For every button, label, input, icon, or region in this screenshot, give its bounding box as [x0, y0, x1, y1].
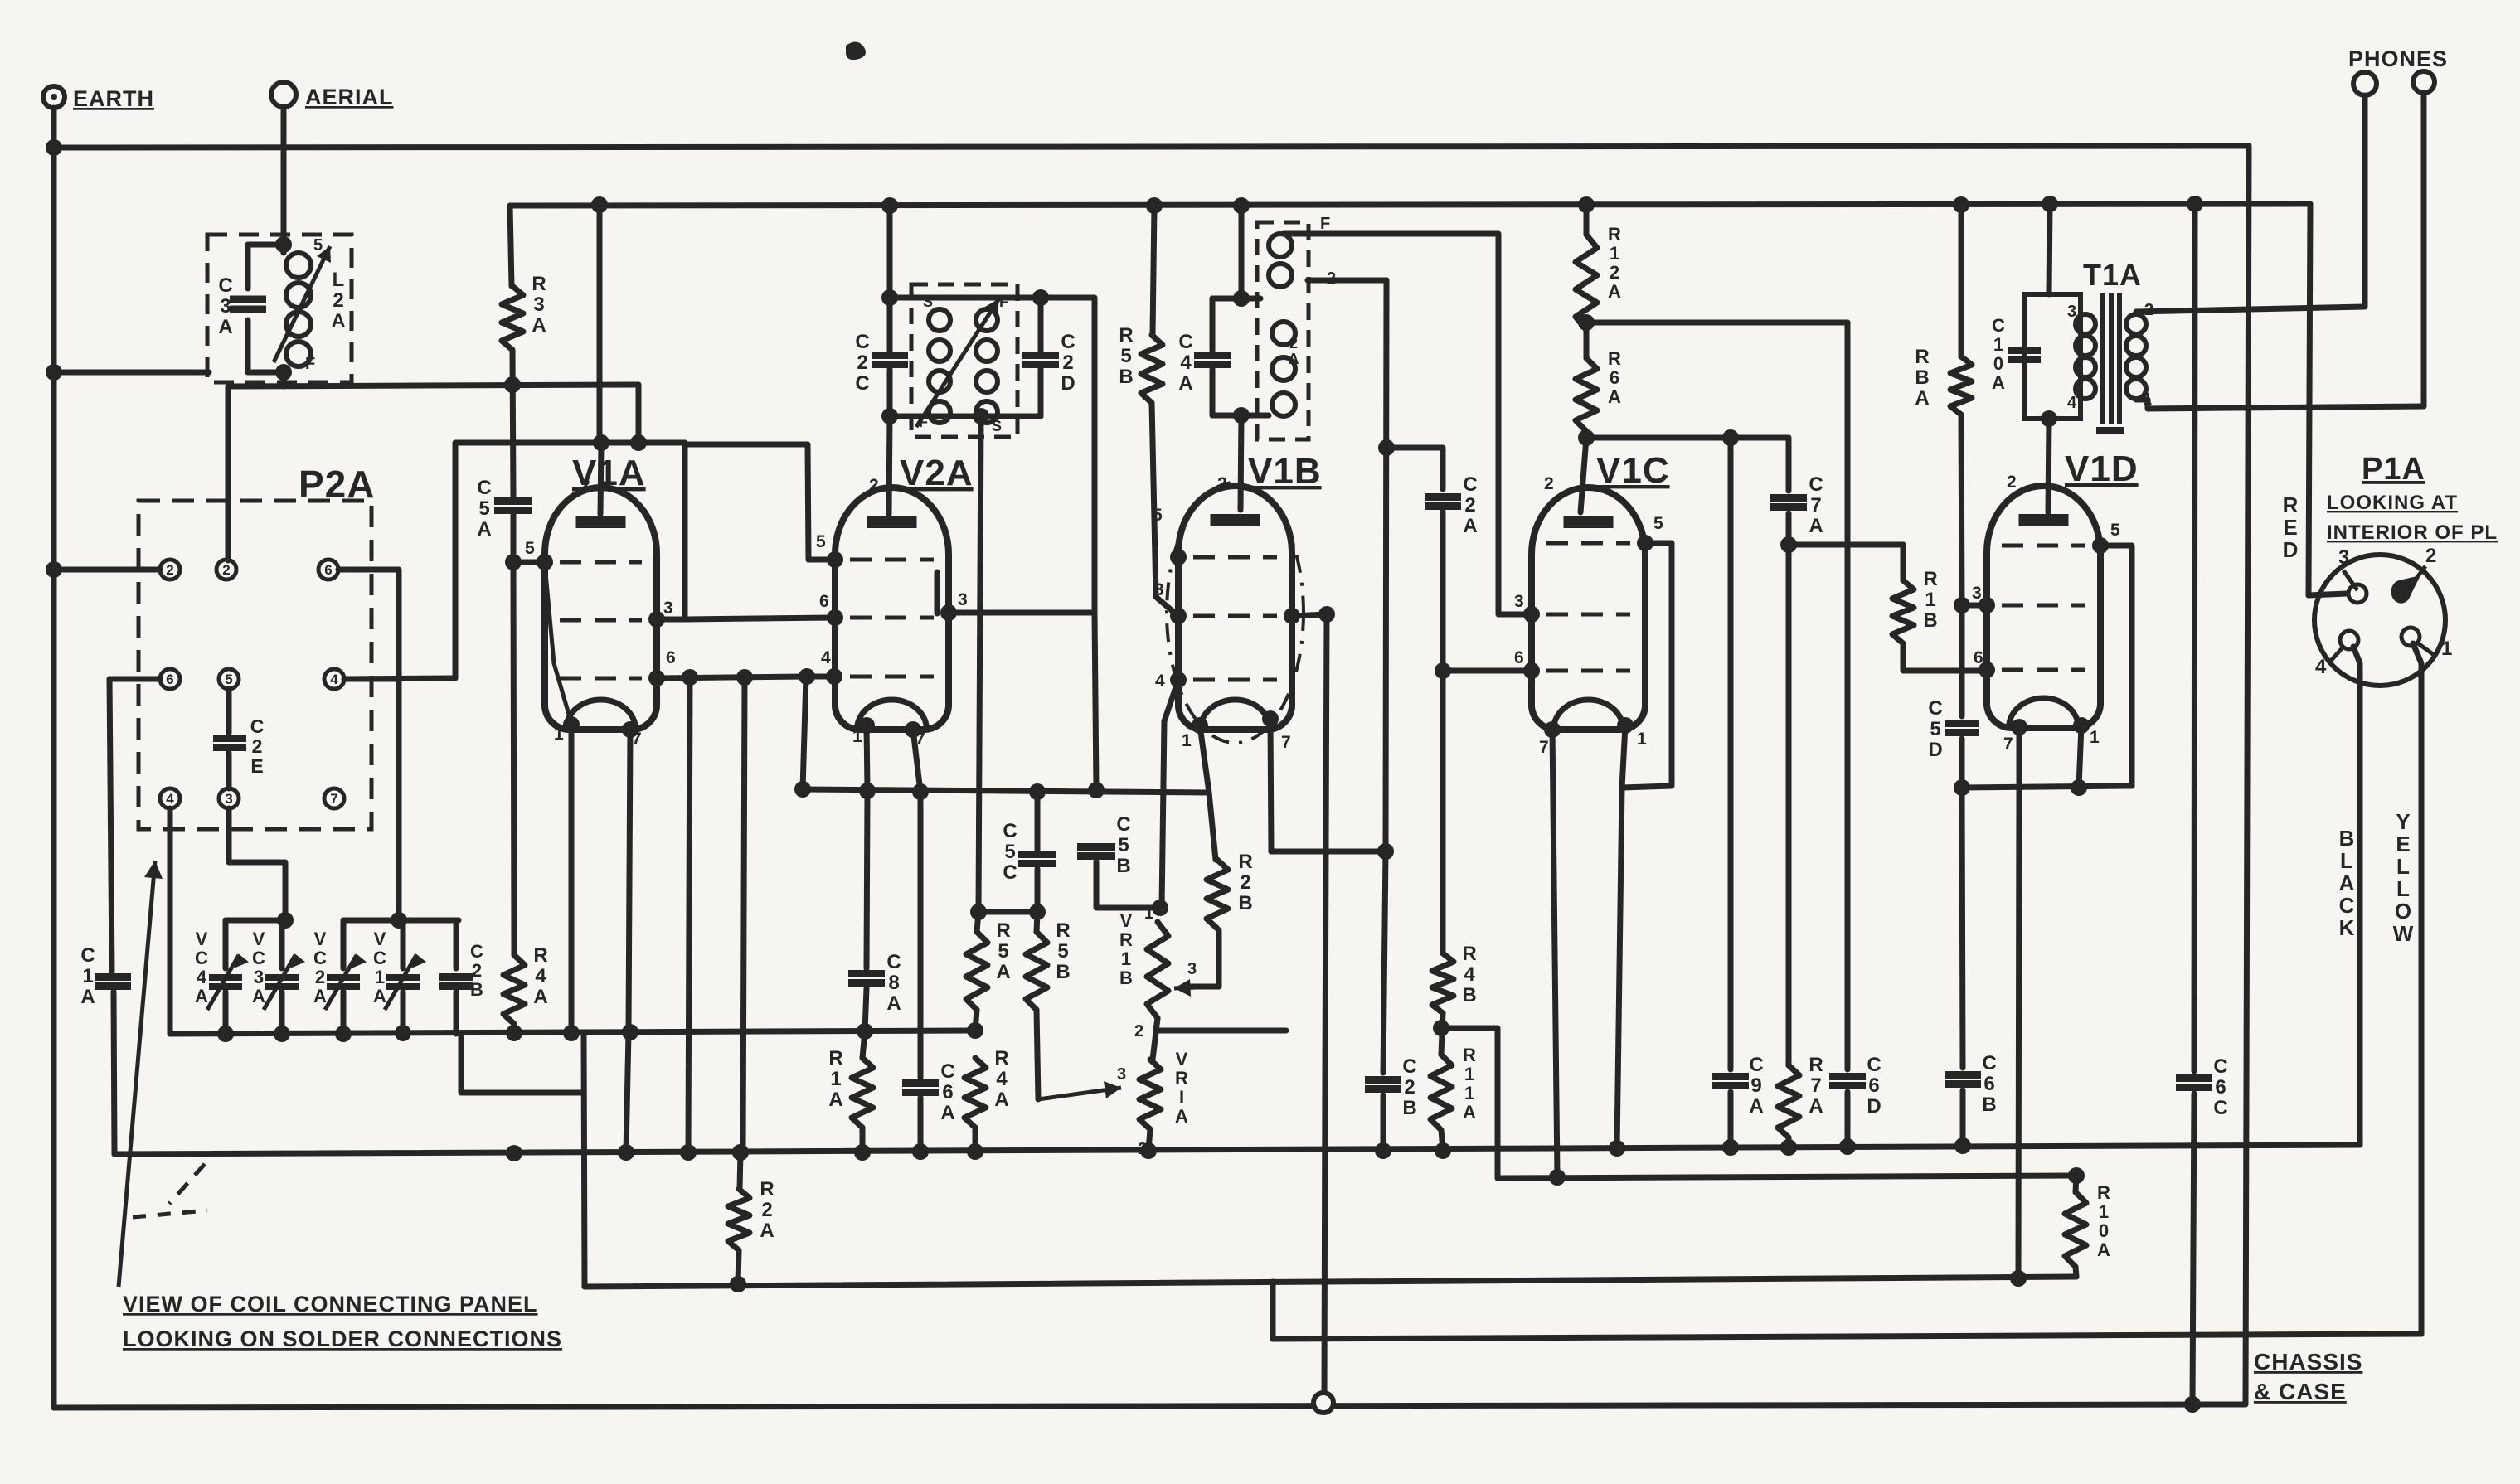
wire r2c1 left [109, 677, 160, 682]
junction x1672 y540 [1378, 439, 1395, 456]
capacitor C2C [872, 356, 908, 365]
svg-text:R1B: R1B [1923, 568, 1937, 632]
wire x898 from grid bus [743, 677, 745, 1152]
wire R4A b bottom [973, 1128, 978, 1151]
capacitor C7A [1770, 498, 1807, 507]
resistor R5A [966, 932, 988, 1010]
P2A terminal 5 r2c2 [219, 669, 239, 689]
V2A coil box dashed [911, 284, 1017, 437]
svg-text:R5B: R5B [1119, 324, 1133, 388]
svg-text:BLACK: BLACK [2339, 826, 2355, 940]
AERIAL terminal [271, 82, 296, 107]
wire C6C column [2194, 204, 2195, 1071]
svg-text:4: 4 [1155, 672, 1166, 691]
wire bus Y3 [114, 1145, 2360, 1154]
wire pin6 V1C link [1443, 668, 1532, 674]
wire bus Y3b [1498, 1176, 2076, 1178]
svg-text:3: 3 [2338, 546, 2350, 569]
transformer T1A box [2024, 294, 2081, 419]
wire Y1 step down [461, 1034, 584, 1093]
wire V1A pin2 cap lead [600, 443, 601, 514]
wire coil bottom rail [248, 370, 284, 376]
svg-text:C6C: C6C [2213, 1055, 2227, 1119]
svg-text:R6A: R6A [1608, 348, 1621, 407]
arrow view note to P2A [119, 861, 155, 1287]
P2A terminal 7 r3c3 [324, 788, 344, 808]
wire pin7 V1D drop [2018, 727, 2019, 1278]
wire r2c3 stub [344, 677, 399, 682]
junction R12A bottom [1578, 314, 1595, 331]
wire V1B pin3 stub [1292, 614, 1327, 616]
junction Y3b [1549, 1167, 2085, 1186]
wire C2C to V2A cap [889, 416, 890, 514]
P2A terminal 6 r1c3 [318, 560, 338, 580]
wire VC2A top lead [341, 920, 347, 968]
inductor L3B secondary [976, 309, 998, 423]
resistor R10A [2065, 1192, 2086, 1267]
svg-text:S: S [992, 418, 1003, 434]
wire coil rail top [890, 295, 1041, 301]
wire C9A to Y3 [1728, 1092, 1734, 1147]
wire busB to R8A [1959, 205, 1964, 356]
wire C5C bottom lead [1035, 869, 1041, 912]
wire R2A bottom [738, 1250, 739, 1284]
resistor R8A [1950, 356, 1972, 415]
tube V1D pin dots [1979, 537, 2109, 735]
P2A terminal 2 r1c1 [160, 560, 180, 580]
wire x1672 drop [1386, 280, 1386, 851]
wire R6A to V1C cap [1580, 438, 1586, 512]
wire x2366 down to C6B [1962, 788, 1963, 1068]
wire VC1A bottom [401, 992, 406, 1034]
wire pin5 V1A stub [513, 560, 545, 565]
wire C2E top [226, 689, 232, 733]
wire VC4A bottom [223, 992, 229, 1034]
wire R8A col to C5D [1959, 605, 1965, 716]
junction busB R8A [1953, 196, 1969, 213]
wire pin5 riser up [685, 444, 808, 560]
svg-text:C1A: C1A [80, 944, 95, 1008]
capacitor C2A [1425, 497, 1461, 507]
svg-text:V1B: V1B [1248, 451, 1322, 492]
wire C6D to Y3 [1845, 1092, 1851, 1147]
svg-text:R11A: R11A [1463, 1045, 1476, 1123]
svg-text:V1D: V1D [2065, 449, 2139, 489]
wire rail to V1B cap [1241, 415, 1241, 510]
wire VC1A top lead [401, 920, 406, 968]
ink blob artifact [846, 41, 866, 60]
resistor R4A b [964, 1058, 986, 1128]
wire pin5 V1C loop [1622, 543, 1672, 788]
junction R3A y463 [504, 376, 521, 393]
svg-text:3: 3 [1117, 1065, 1127, 1084]
wire coil 2 tap [1308, 278, 1386, 284]
arrow VR1B wiper [1174, 987, 1219, 988]
wire R7A to Y3 [1786, 1137, 1792, 1147]
junction y817 [682, 668, 815, 686]
junction bus Y3 dots [506, 1137, 1971, 1161]
svg-text:R10A: R10A [2097, 1182, 2110, 1260]
wire C2D bottom lead [1038, 369, 1044, 416]
aerial coil box dashed [207, 235, 352, 382]
wire R11A jog [1441, 1028, 1498, 1178]
svg-text:2: 2 [1217, 474, 1228, 493]
wire BLACK [2353, 647, 2360, 1145]
svg-text:F: F [999, 293, 1009, 310]
wire r3c1 down to rail Y1 [168, 808, 173, 1034]
wire YELLOW [2413, 643, 2421, 1334]
capacitor C2E [213, 739, 246, 748]
capacitor C5D [1945, 724, 1979, 733]
wire C5D to y953 [1959, 739, 1965, 788]
wire aerial drop [281, 107, 287, 245]
wire R5B mid to pin5 [1152, 403, 1178, 616]
plug pin 4 [2340, 631, 2358, 649]
svg-text:5: 5 [525, 539, 536, 558]
svg-text:1: 1 [2090, 728, 2100, 747]
resistor VR1A [1139, 1060, 1161, 1129]
svg-text:VC2A: VC2A [313, 929, 327, 1006]
svg-text:4: 4 [2315, 656, 2327, 678]
junction C2A pin6 [1435, 662, 1451, 679]
svg-text:VIEW OF COIL CONNECTING PANEL: VIEW OF COIL CONNECTING PANEL [123, 1292, 538, 1317]
wire R10A top [2076, 1176, 2076, 1192]
svg-text:C4A: C4A [1178, 331, 1192, 395]
wire C4A rail bottom [1212, 413, 1269, 419]
junction pin3 V1B [1318, 606, 1335, 623]
junction earth r1c1 [46, 561, 62, 578]
svg-text:2: 2 [580, 476, 591, 495]
P2A terminal 2 r1c2 [216, 560, 236, 580]
resistor R5B mid [1141, 335, 1163, 403]
wire x1956 to Y3 [1617, 788, 1622, 1148]
junction border C6C [2184, 1396, 2201, 1413]
wire x2087 down [1728, 438, 1734, 1069]
svg-text:R4A: R4A [994, 1047, 1008, 1111]
svg-text:R1A: R1A [828, 1047, 842, 1111]
wire y463 aerial to R3A [228, 385, 638, 386]
tube V1A [545, 487, 657, 730]
wire cathode bus y955 [803, 789, 1209, 793]
wire C6C to border [2192, 1094, 2194, 1404]
wire r3c2 jog to VC rail [229, 808, 285, 920]
P2A terminal 6 r2c1 [160, 669, 180, 689]
wire R2A top [740, 1152, 740, 1189]
wire x831 drop [688, 677, 690, 1152]
wire VR1B bottom tail [1156, 1018, 1286, 1031]
wire pin1 V1C drop [1622, 725, 1625, 788]
svg-text:R12A: R12A [1608, 224, 1621, 302]
svg-text:R3A: R3A [532, 273, 546, 337]
wire C3A stub top [245, 245, 251, 289]
wire C3A top rail [248, 242, 284, 248]
wire C2D top lead [1038, 298, 1044, 351]
junction T1A bottom [2041, 410, 2057, 427]
T1A core [2096, 293, 2124, 430]
svg-text:5: 5 [2110, 521, 2121, 540]
wire C2B mid to Y3 [1381, 1095, 1386, 1151]
wire R1A top [862, 1031, 865, 1058]
trimmer VC3A [264, 955, 303, 1010]
wire C5B bottom corner [1096, 861, 1160, 908]
wire VC rail2 [343, 918, 459, 924]
wire coil rail bottom [890, 414, 1041, 419]
tube V1C pin dots [1523, 535, 1653, 738]
capacitor C5B [1077, 847, 1115, 856]
resistor R1A [852, 1058, 873, 1128]
junction VC rail1 [277, 912, 294, 929]
wire busB corner down RED [2309, 204, 2310, 595]
tube V1C [1532, 487, 1645, 730]
wire R5A to Y1 [975, 1010, 977, 1031]
wire C4A top lead [1210, 298, 1216, 351]
svg-text:F: F [305, 355, 316, 373]
svg-text:VC4A: VC4A [195, 929, 208, 1006]
svg-text:C10A: C10A [1992, 315, 2005, 393]
resistor R4B [1432, 953, 1454, 1013]
svg-text:C7A: C7A [1809, 473, 1823, 537]
resistor R1B [1892, 580, 1914, 643]
wire V2A pin1 drop [867, 725, 867, 790]
wire VR1A to Y3 [1148, 1129, 1150, 1151]
svg-text:2: 2 [1544, 474, 1555, 493]
wire C5C top lead [1035, 792, 1041, 850]
svg-text:V1C: V1C [1596, 450, 1670, 491]
T1A secondary winding [2126, 314, 2146, 399]
svg-text:& CASE: & CASE [2254, 1379, 2347, 1404]
junction busB C6C [2187, 196, 2203, 212]
EARTH terminal center [51, 94, 57, 100]
tube V1A inner cathode [545, 564, 571, 723]
svg-text:5: 5 [1653, 514, 1664, 533]
wire phones left drop [2362, 95, 2368, 307]
junction y1100 [970, 904, 1046, 920]
wire y1027 link [1271, 849, 1386, 855]
svg-text:R2A: R2A [760, 1178, 774, 1242]
svg-text:1: 1 [554, 725, 565, 744]
svg-text:6: 6 [666, 648, 677, 667]
svg-text:1: 1 [2441, 638, 2453, 660]
svg-text:1: 1 [1637, 730, 1648, 749]
junction bus A left [46, 139, 62, 156]
wire R4B to R11A [1441, 1013, 1443, 1055]
resistor R2A [728, 1189, 750, 1250]
junction box top pin2 V1A [593, 434, 647, 451]
svg-text:C2B: C2B [470, 941, 483, 1000]
junction R2A [730, 1144, 749, 1292]
capacitor C6B [1945, 1075, 1981, 1084]
wire R5A top lead [977, 912, 978, 932]
wire y463 corner down to box top [636, 385, 642, 443]
wire R2B wiper link [1184, 930, 1219, 987]
terminal chassis open circle [1313, 1393, 1333, 1413]
tube V1A pin dots [537, 554, 665, 738]
svg-text:C6D: C6D [1867, 1054, 1881, 1118]
svg-text:3: 3 [1187, 960, 1197, 978]
wire C1A top [109, 679, 112, 972]
svg-text:6: 6 [166, 672, 173, 687]
svg-text:5: 5 [816, 532, 827, 551]
junction busB T1A [2042, 196, 2058, 212]
junction busB R12A [1578, 196, 1595, 213]
svg-text:6: 6 [1514, 648, 1525, 667]
svg-text:C6B: C6B [1982, 1052, 1996, 1116]
wire link y1100 [978, 909, 1037, 915]
svg-text:2: 2 [869, 476, 880, 495]
wire earth vertical left border [51, 108, 57, 1408]
wire top bus A [54, 146, 2249, 148]
wire C2E bottom [226, 753, 232, 788]
wire vert x704 to Y4 [584, 1034, 585, 1287]
P2A box dashed [138, 501, 371, 829]
junction C7A bottom branch [1780, 536, 1797, 553]
capacitor C8A [848, 974, 885, 983]
wire T1A pin2 out [2136, 307, 2364, 312]
wire R12A col top [1584, 205, 1590, 235]
wire V1B pin4 to VR1B [1162, 680, 1178, 908]
junction earth coil tap [46, 364, 62, 381]
junction busB R5Bmid [1146, 197, 1163, 214]
PHONES terminal right [2413, 71, 2435, 93]
svg-text:2A: 2A [1289, 335, 1299, 367]
plug P1A circle [2314, 555, 2445, 686]
capacitor C5C [1018, 855, 1056, 864]
junction C4A rail [1233, 290, 1250, 424]
wire busB to T1A [2049, 204, 2050, 294]
svg-text:2: 2 [222, 562, 230, 578]
wire C2B top lead [454, 920, 459, 968]
wire R1A bottom [860, 1128, 866, 1152]
wire RED to pin3 [2309, 594, 2347, 595]
wire y528 link [1586, 435, 1789, 441]
svg-text:INTERIOR OF PL: INTERIOR OF PL [2327, 521, 2498, 544]
inductor V1B coil lower [1272, 322, 1295, 416]
svg-text:S: S [923, 293, 934, 310]
wire C3A stub bottom [245, 320, 251, 372]
svg-text:R5A: R5A [996, 919, 1010, 983]
wire C2A down [1440, 512, 1446, 953]
capacitor C9A [1712, 1077, 1749, 1086]
svg-text:VR1B: VR1B [1119, 910, 1133, 988]
junction C5A pin5 [505, 554, 522, 570]
svg-text:RED: RED [2283, 492, 2299, 562]
svg-text:C6A: C6A [940, 1060, 954, 1124]
resistor VR1B [1147, 922, 1168, 1018]
svg-text:4: 4 [821, 648, 832, 667]
wire bus Y5 [1273, 1334, 2421, 1339]
arrow through L2A [274, 246, 330, 362]
wire R10A bottom [2076, 1267, 2076, 1277]
wire VC3A bottom [279, 992, 285, 1034]
svg-text:C9A: C9A [1749, 1054, 1763, 1118]
svg-text:C2D: C2D [1061, 331, 1075, 395]
svg-text:C5D: C5D [1928, 697, 1942, 761]
svg-text:R2B: R2B [1238, 851, 1252, 914]
wire y389 link [1586, 320, 1848, 326]
P2A terminal 4 r3c1 [160, 788, 180, 808]
wire C2B mid col [1383, 851, 1386, 1073]
wire bus Y4 [585, 1277, 2076, 1287]
svg-text:C2C: C2C [855, 331, 869, 395]
resistor R12A [1576, 235, 1597, 330]
svg-text:L2A: L2A [331, 269, 345, 332]
wire C8A to Y1 [865, 988, 867, 1031]
svg-text:5: 5 [313, 236, 323, 255]
svg-text:RBA: RBA [1915, 346, 1929, 410]
svg-text:2: 2 [1134, 1022, 1144, 1040]
svg-text:V2A: V2A [900, 453, 974, 493]
svg-text:1: 1 [1182, 731, 1192, 750]
wire C2B bottom [454, 992, 459, 1034]
wire y657 link [1789, 542, 1903, 548]
wire V2A pin3 stub [949, 610, 1095, 616]
svg-text:VC1A: VC1A [373, 929, 386, 1006]
svg-text:C2A: C2A [1463, 473, 1477, 537]
wire x2157 C7A top [1786, 438, 1792, 491]
wire bottom border [54, 1404, 2244, 1408]
capacitor C6A [902, 1084, 939, 1093]
wire C2C bottom lead [887, 369, 893, 416]
wire anode drop to C5B [1095, 613, 1096, 790]
wire rail Y1 [170, 1031, 975, 1034]
svg-text:R4B: R4B [1462, 943, 1476, 1006]
wire R3A to C5A [512, 350, 513, 497]
wire coil S drop x1180 [978, 416, 981, 912]
wire C5A to pin5 junction [511, 515, 517, 561]
capacitor C6C [2176, 1079, 2212, 1088]
resistor R4A [503, 955, 525, 1024]
wire V2A pin7 drop [913, 730, 920, 1078]
junction coil rail bottom [881, 408, 989, 424]
svg-text:6: 6 [819, 592, 830, 611]
junction rail Y1 [217, 1022, 983, 1042]
junction pin3 V1D branch [1954, 597, 1970, 613]
junction x898 y817 [736, 669, 753, 686]
wire VC3A top lead [279, 920, 285, 968]
svg-text:C3A: C3A [218, 274, 232, 338]
tube V1B pin dots [1170, 549, 1300, 734]
junction bus Y4 dots [730, 1270, 2027, 1292]
resistor R3A [502, 286, 523, 350]
junction x1950 Y3 [1609, 1140, 1625, 1157]
wire coil bottom drop [281, 372, 287, 386]
junction VC rail2 [391, 912, 407, 929]
trimmer VC4A [207, 955, 247, 1010]
svg-text:7: 7 [1281, 733, 1292, 752]
svg-text:VC3A: VC3A [252, 929, 265, 1006]
wire pin5 V1D loop [2100, 546, 2132, 786]
resistor R2B [1207, 860, 1228, 929]
P2A terminal 4 r2c3 [324, 669, 344, 689]
wire C8A lead [867, 791, 867, 968]
svg-text:C5B: C5B [1116, 813, 1130, 877]
wire phones right drop [2421, 94, 2427, 406]
arrow VR1A wiper [1038, 1088, 1121, 1099]
wire pin1 V1D drop [2079, 725, 2081, 788]
svg-text:C5C: C5C [1003, 820, 1017, 884]
wire bus B corner to R3A [510, 206, 512, 286]
wire right vertical from bus A to bottom [2246, 146, 2249, 1404]
trimmer VC1A [385, 955, 425, 1010]
wire grid bus y817 [657, 677, 833, 678]
svg-text:7: 7 [1539, 738, 1550, 757]
svg-text:EARTH: EARTH [73, 86, 154, 111]
capacitor C2D [1022, 356, 1059, 365]
plug pin 1 [2401, 628, 2420, 646]
dash tail [133, 1210, 207, 1217]
wire coil L2A top stub [281, 245, 287, 253]
svg-text:1: 1 [1144, 904, 1154, 923]
